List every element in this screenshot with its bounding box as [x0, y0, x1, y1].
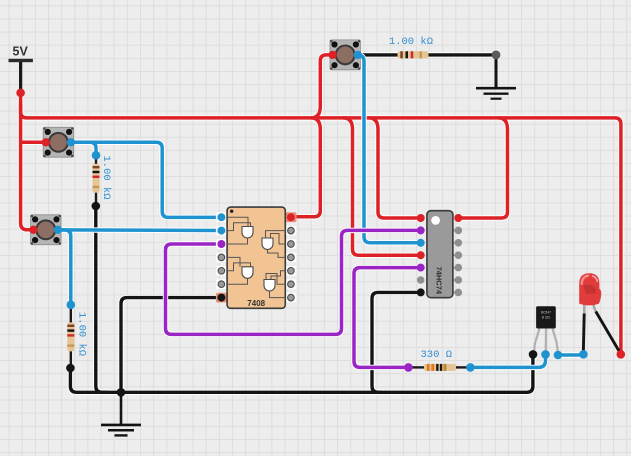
- node: 5V wire end: [16, 89, 25, 98]
- pin stubs right: [453, 230, 458, 292]
- node: R2 bottom: [66, 364, 75, 373]
- pin1 mark: [431, 216, 440, 225]
- node: Q1 emitter leg: [529, 350, 538, 359]
- legs: [583, 302, 586, 315]
- wire black: LED anode lead diagonal to red node: [596, 312, 621, 355]
- node: 74HC74 pin2: [417, 226, 425, 234]
- wire purple: 74HC74 pin5 Q output to resistor R4 left: [354, 268, 421, 368]
- wire blue: branch from S2 to resistor R2 top: [60, 230, 71, 305]
- wire blue: transistor Q1 right leg to LED D1 cathode: [558, 353, 583, 357]
- node: LED anode / red rail end: [617, 350, 626, 359]
- ground symbol bottom: [101, 392, 141, 435]
- svg-text:B 331: B 331: [542, 316, 551, 320]
- wire red: 74HC74 pin4 to 5V bus: [343, 118, 421, 255]
- node: S2 left pin: [29, 226, 37, 234]
- node: Q1 base leg: [541, 350, 550, 359]
- dome: [579, 273, 601, 305]
- node: R2 top: [67, 301, 76, 310]
- IC U1 7408 quad AND: [216, 207, 297, 308]
- internal routing: [227, 217, 286, 297]
- node: R3 right ground end: [492, 51, 501, 60]
- resistor R2 1.00k vertical: [67, 305, 74, 368]
- ground symbol top right: [476, 55, 516, 99]
- resistor R4 330 ohm horizontal: [408, 364, 470, 371]
- svg-text:74HC74: 74HC74: [434, 267, 443, 295]
- node: 7408 pin2: [217, 227, 225, 235]
- IC U2 74HC74: [417, 211, 462, 298]
- node: 74HC74 pin14: [454, 214, 462, 222]
- resistor R3 1.00k horizontal: [398, 51, 429, 58]
- wire red: 7408 pin14 VCC to 5V bus: [292, 118, 320, 217]
- pushbutton S3: [330, 40, 360, 70]
- node: Q1 collector leg: [554, 351, 563, 360]
- pin1 mark: [230, 210, 233, 213]
- svg-text:330 Ω: 330 Ω: [421, 349, 453, 361]
- wire red main: 5V node down, bus right, down right edge to LED anode: [21, 93, 621, 355]
- svg-text:7408: 7408: [247, 299, 265, 308]
- wire black: ground bus from R2 bottom to transistor Q1 left leg: [70, 354, 533, 392]
- red 5V net wires: [21, 55, 621, 354]
- blue output wires: [470, 355, 583, 368]
- svg-text:BC547: BC547: [541, 311, 551, 315]
- AND gate symbols: [242, 227, 275, 292]
- node: LED cathode: [579, 350, 588, 359]
- wire red: 5V rail down to pushbutton S2 left pin: [21, 104, 34, 230]
- wire red: stub to pushbutton S1 left pin: [21, 141, 46, 145]
- node: ground junction bottom: [117, 388, 126, 397]
- node: S3 left pin: [328, 51, 336, 59]
- wire black: LED cathode lead down: [582, 314, 586, 355]
- transistor Q1 BC547: [534, 306, 558, 353]
- wire purple: 7408 pin3 to 74HC74 pin2: [166, 230, 421, 334]
- wire black: 7408 pin7 GND to ground junction: [121, 298, 221, 393]
- LED D1 red: [579, 273, 621, 354]
- wire red: pushbutton S3 left pin to 5V bus: [311, 55, 333, 118]
- wire black: resistor R1 bottom down to ground bus: [96, 206, 107, 392]
- node: 7408 pin3: [217, 240, 225, 248]
- wire red: 74HC74 pin14 VCC to 5V bus: [458, 118, 507, 218]
- body: [427, 211, 453, 298]
- wire red: 74HC74 pin1 to 5V bus: [369, 118, 421, 218]
- node: 7408 pin14: [287, 213, 295, 221]
- black ground net wires: [70, 55, 533, 392]
- node: S3 right pin: [354, 51, 362, 59]
- pin pads right: [286, 212, 297, 222]
- svg-text:5V: 5V: [13, 45, 29, 59]
- node: R4 right: [466, 363, 475, 372]
- node: 74HC74 pin5: [417, 264, 425, 272]
- node: S1 right pin: [67, 138, 75, 146]
- wire black: 74HC74 pin7 GND down to ground bus: [372, 292, 421, 392]
- node: 74HC74 pin3: [417, 239, 425, 247]
- pin pads left: [216, 212, 227, 222]
- body: [227, 207, 285, 308]
- wire black: S3 right pin through R3 to ground node: [358, 53, 496, 56]
- node: 74HC74 pin1: [417, 214, 425, 222]
- svg-text:1.00 kΩ: 1.00 kΩ: [76, 312, 88, 356]
- unconnected pin dots: [417, 276, 425, 284]
- blue button net wires: [58, 55, 421, 305]
- node: 74HC74 pin4: [417, 251, 425, 259]
- node: R1 top: [92, 151, 101, 160]
- pushbutton S1: [43, 127, 73, 157]
- node: R4 left: [404, 363, 413, 372]
- node: 7408 pin7: [217, 294, 225, 302]
- wire blue: pushbutton S1 right pin to 7408 pin1: [71, 142, 221, 217]
- wire blue: branch from S1 to resistor R1 top: [84, 142, 96, 155]
- unconnected pin circles left (pins 4,5,6): [218, 254, 225, 261]
- node: S2 right pin: [54, 226, 62, 234]
- node: S1 left pin: [42, 138, 50, 146]
- wire blue: resistor R4 right to transistor Q1 base: [470, 355, 545, 368]
- wire blue: pushbutton S2 right pin to 7408 pin2: [58, 228, 221, 232]
- node: R1 bottom: [92, 202, 101, 211]
- svg-text:1.00 kΩ: 1.00 kΩ: [100, 156, 112, 200]
- purple wires: [166, 230, 421, 367]
- svg-text:1.00 kΩ: 1.00 kΩ: [389, 36, 433, 48]
- power 5V symbol: [9, 45, 33, 93]
- pushbutton S2: [31, 215, 61, 245]
- node: 7408 pin1: [217, 213, 225, 221]
- resistor R1 1.00k vertical: [93, 155, 100, 206]
- wire blue: pushbutton S3 right pin down to 74HC74 pin3: [358, 55, 421, 243]
- node: 74HC74 pin7: [417, 288, 425, 296]
- unconnected pin circles right (pins 8-13): [288, 227, 295, 234]
